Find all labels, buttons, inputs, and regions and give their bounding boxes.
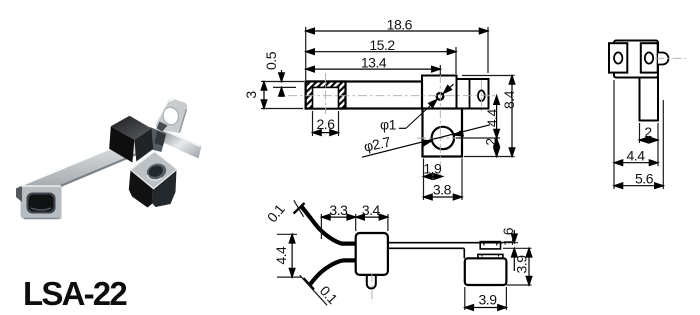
svg-text:3.8: 3.8 xyxy=(433,182,452,198)
ext 4.4 bottom / 2 top xyxy=(456,137,500,139)
dimension texts, main view xyxy=(243,17,517,198)
upper blade tip face xyxy=(294,203,305,214)
ext bar top left xyxy=(261,81,304,83)
dim 0.5 xyxy=(281,70,283,82)
svg-text:LSA-22: LSA-22 xyxy=(23,275,127,312)
oval hole xyxy=(478,90,485,101)
bottom pin xyxy=(367,275,376,289)
dim 3.3 xyxy=(321,216,355,218)
dim 5.6 side xyxy=(614,185,663,187)
ext 3.9 bottom right2 xyxy=(505,287,507,310)
svg-text:1.9: 1.9 xyxy=(423,160,442,176)
svg-text:2.6: 2.6 xyxy=(317,116,336,132)
side pin xyxy=(658,53,669,65)
ext 4.4 top left xyxy=(277,233,297,235)
dim 4.4 bottom left xyxy=(291,234,293,277)
dim 15.2 xyxy=(306,51,456,53)
svg-text:5.6: 5.6 xyxy=(635,170,654,186)
dim 4.4 right xyxy=(496,96,498,138)
dim 3.4 xyxy=(356,216,388,218)
ext 15.2 right xyxy=(455,47,457,74)
ext 3.3/3.4 middle xyxy=(355,214,357,231)
svg-text:8.4: 8.4 xyxy=(501,90,517,109)
dim 3.8 xyxy=(424,196,463,198)
lower block xyxy=(423,109,463,157)
photo: nut box metal top with hole xyxy=(131,152,178,189)
svg-text:2: 2 xyxy=(483,138,499,146)
dim 3.9 right xyxy=(528,248,530,285)
dim 2.6 xyxy=(313,132,339,134)
side left oval xyxy=(614,52,622,63)
ext 18.6 right xyxy=(487,27,489,73)
ext 1.6 top right xyxy=(501,242,518,244)
photo: bracket tab with hole xyxy=(156,99,188,133)
big hole phi2.7 xyxy=(432,127,454,149)
hatched section left wall xyxy=(306,82,346,109)
dim phi1 leader xyxy=(399,127,406,129)
svg-text:13.4: 13.4 xyxy=(361,55,387,71)
arm upper line xyxy=(388,242,503,244)
centerline bottom pin xyxy=(371,273,373,303)
ext 3.9 bottom left xyxy=(464,287,466,310)
ext notch top left xyxy=(273,86,296,88)
ext 3.9 bottom right xyxy=(506,284,531,286)
connector to right block xyxy=(463,248,465,258)
ext 8.4 top xyxy=(462,75,515,77)
svg-text:2: 2 xyxy=(644,124,652,140)
ext 2.6 right xyxy=(338,111,340,136)
lower blade body xyxy=(310,260,356,284)
centerline horizontal main xyxy=(288,95,498,97)
photo: black cube front face xyxy=(109,126,134,162)
svg-text:3: 3 xyxy=(243,91,259,99)
dim 2 right xyxy=(496,138,498,157)
photo: black cube top face xyxy=(111,116,152,140)
ext 3.4 right xyxy=(387,214,389,231)
ext 2 bottom / 8.4 bottom xyxy=(464,156,515,158)
dim phi2.7 leader xyxy=(362,125,490,157)
lower blade tip face xyxy=(303,278,314,289)
dim 3 xyxy=(263,82,265,109)
svg-text:3.4: 3.4 xyxy=(362,202,381,218)
ext left end top xyxy=(305,27,307,80)
centerline big hole horizontal xyxy=(417,137,470,139)
right block xyxy=(465,258,507,285)
svg-text:15.2: 15.2 xyxy=(369,37,395,53)
ext 4.4 bottom left xyxy=(277,276,302,278)
svg-text:18.6: 18.6 xyxy=(387,17,413,33)
dim 8.4 xyxy=(511,76,513,157)
block with small hole phi1 xyxy=(422,76,457,109)
photo: dark area behind bracket xyxy=(148,127,167,152)
side plate xyxy=(614,41,658,78)
arm lower line xyxy=(388,247,464,249)
ext side 5.6 right xyxy=(662,100,664,189)
ext 1.9 3.8 left xyxy=(423,159,425,201)
svg-text:4.4: 4.4 xyxy=(273,246,289,265)
photo: lever strip xyxy=(21,131,157,203)
leader 0.1 lower xyxy=(300,275,327,305)
photo: nut box front face xyxy=(129,170,153,208)
ext 1.6 bottom / 3.9 top right xyxy=(503,247,532,249)
ext 3.3 left xyxy=(320,214,322,239)
upper blade body xyxy=(301,206,356,244)
side left square xyxy=(609,43,627,72)
small hole phi1 xyxy=(437,93,444,100)
bottom center block xyxy=(356,233,388,275)
photo: bracket lower plate xyxy=(160,130,202,159)
ext 2.6 left xyxy=(312,111,314,136)
leader 0.1 upper xyxy=(294,200,304,217)
side right square xyxy=(641,43,658,72)
svg-text:4.4: 4.4 xyxy=(627,148,646,164)
svg-text:4.4: 4.4 xyxy=(484,109,500,128)
centerline holes vertical xyxy=(439,74,441,180)
centerline oval xyxy=(480,80,482,111)
svg-text:3.3: 3.3 xyxy=(329,202,348,218)
main bar outline xyxy=(306,82,422,109)
svg-text:0.5: 0.5 xyxy=(263,51,279,70)
side pin centerline xyxy=(655,57,686,59)
hatch notch (white inner) xyxy=(313,87,339,108)
svg-text:φ1: φ1 xyxy=(380,116,397,132)
dim 2 side xyxy=(640,139,659,141)
ext side 4.4/5.6 left xyxy=(613,80,615,189)
block with oval hole xyxy=(457,79,489,109)
photo: black cube right face xyxy=(134,128,153,161)
ext side 2/4.4 right xyxy=(657,123,659,166)
dim 18.6 xyxy=(306,30,488,32)
ext bar bottom left xyxy=(261,108,303,110)
photo: nut box right face xyxy=(152,170,176,208)
dim 13.4 xyxy=(306,68,441,70)
photo: lever foot frame xyxy=(21,187,62,220)
dim 4.4 side xyxy=(614,162,658,164)
inner line of oval block xyxy=(469,79,471,109)
ext 3.8 right xyxy=(461,159,463,201)
svg-text:φ2.7: φ2.7 xyxy=(362,133,392,154)
side leg xyxy=(640,78,659,121)
svg-text:0.1: 0.1 xyxy=(317,283,341,308)
ext side 2 left xyxy=(639,123,641,143)
upper contact tab xyxy=(480,242,500,249)
dim 1.9 xyxy=(424,176,443,178)
svg-text:1.6: 1.6 xyxy=(500,227,516,246)
lower contact tab xyxy=(478,254,503,258)
side right oval xyxy=(645,52,653,63)
svg-text:3.9: 3.9 xyxy=(514,255,530,274)
dimension lines + arrows, main view xyxy=(261,28,515,200)
extension lines, main view xyxy=(261,27,515,200)
dim 1.6 xyxy=(513,230,515,243)
svg-text:3.9: 3.9 xyxy=(479,291,498,307)
ext 13.4 right dark xyxy=(439,65,441,75)
svg-text:0.1: 0.1 xyxy=(264,201,288,226)
centerline notch xyxy=(325,73,327,114)
dim 3.9 bottom xyxy=(465,307,507,309)
centerlines, main view xyxy=(288,73,498,180)
